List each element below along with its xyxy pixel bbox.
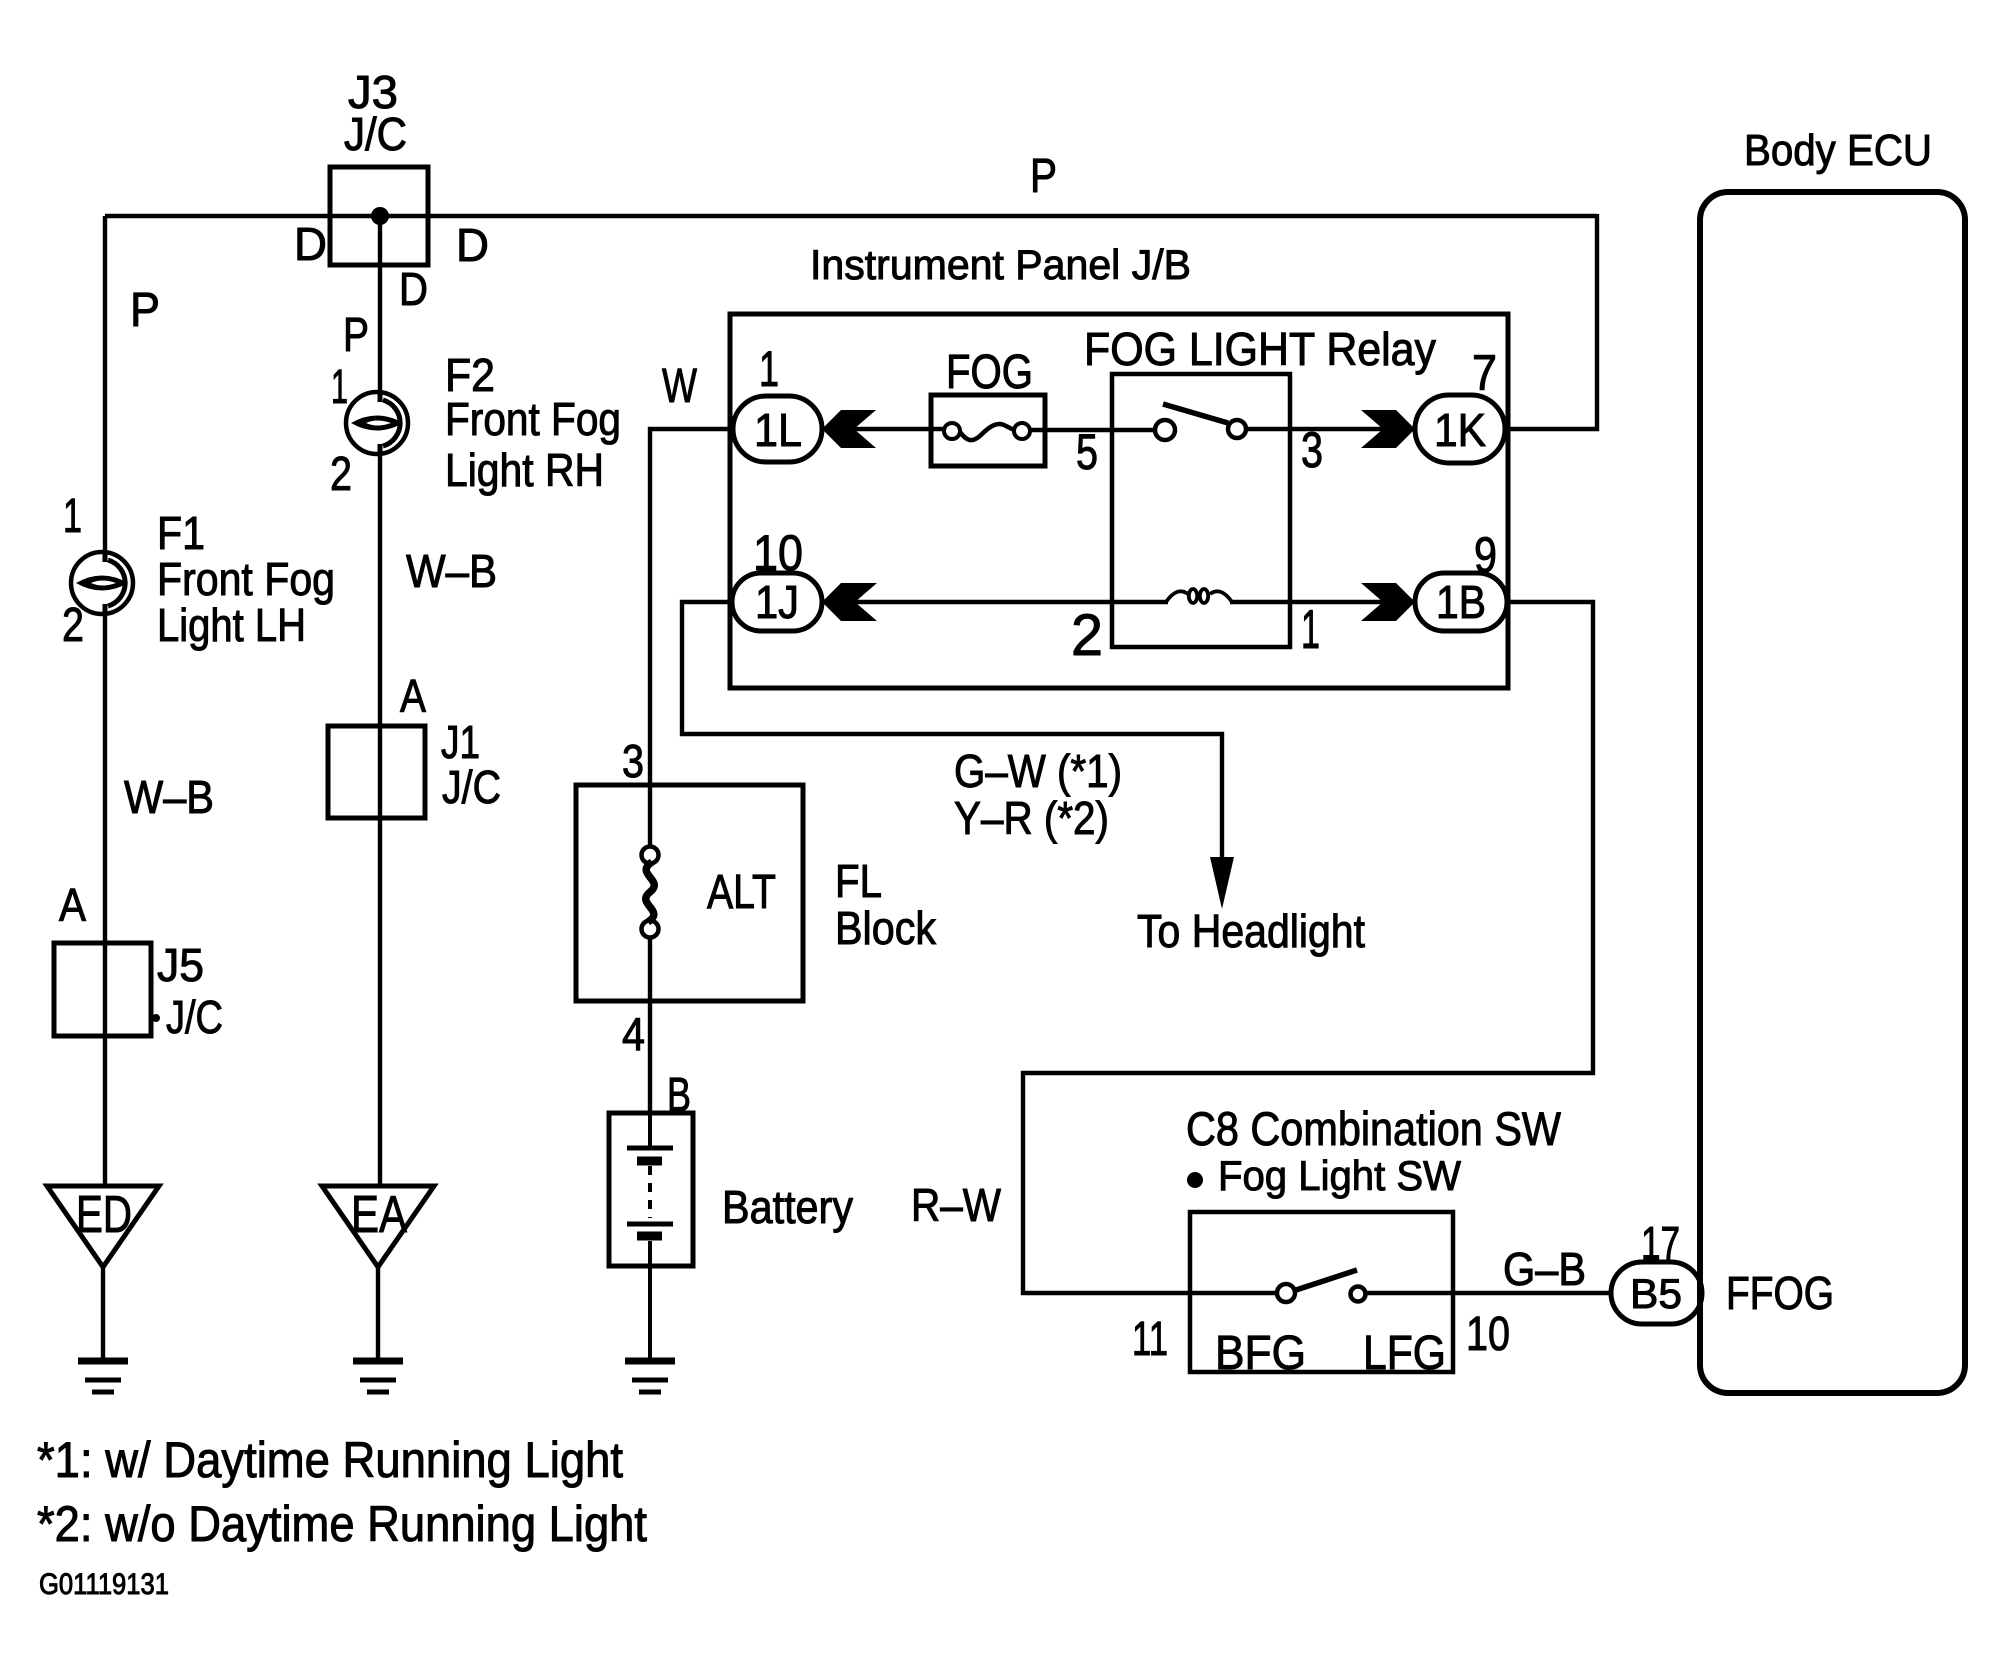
svg-text:A: A	[59, 879, 86, 931]
svg-text:R–W: R–W	[911, 1179, 1002, 1231]
wire 1B to combination switch (R-W)	[1023, 602, 1593, 1293]
fuse FOG element	[944, 423, 1030, 440]
lamp F2 Front Fog Light RH	[346, 392, 408, 454]
arrow into 1L	[822, 410, 876, 448]
ground symbol left	[78, 1361, 128, 1392]
wire W from 1L to FL block	[650, 429, 733, 1113]
svg-text:2: 2	[330, 448, 352, 501]
label J/C of J5	[152, 1014, 160, 1022]
Body ECU box	[1700, 192, 1965, 1393]
battery box	[609, 1113, 693, 1266]
svg-text:FL: FL	[835, 855, 882, 907]
svg-text:7: 7	[1472, 345, 1497, 401]
svg-text:*1: w/ Daytime Running Light: *1: w/ Daytime Running Light	[37, 1432, 623, 1488]
svg-text:W: W	[662, 360, 698, 413]
svg-text:W–B: W–B	[406, 545, 497, 597]
svg-text:10: 10	[1466, 1308, 1510, 1361]
ground triangle EA	[322, 1186, 434, 1267]
svg-text:3: 3	[622, 735, 644, 787]
wire 1K to top P wire	[1505, 214, 1597, 429]
fusible link ALT	[642, 847, 659, 938]
svg-text:Front Fog: Front Fog	[445, 393, 621, 445]
svg-text:*2: w/o Daytime Running Light: *2: w/o Daytime Running Light	[37, 1496, 647, 1552]
svg-text:Block: Block	[835, 902, 937, 954]
relay switch contacts	[1155, 420, 1175, 440]
ground symbol middle	[353, 1361, 403, 1392]
junction block J5 J/C	[54, 943, 151, 1036]
svg-text:10: 10	[753, 525, 803, 581]
wire switch to B5 (G-B)	[1367, 1291, 1611, 1295]
svg-text:9: 9	[1474, 527, 1497, 583]
svg-text:Fog Light SW: Fog Light SW	[1218, 1152, 1461, 1199]
lamp F1 Front Fog Light LH	[71, 552, 133, 614]
svg-text:1: 1	[759, 341, 779, 397]
arrow into 1K	[1361, 410, 1415, 448]
svg-text:FFOG: FFOG	[1726, 1267, 1834, 1319]
connector 1B pin 9	[1415, 573, 1507, 631]
svg-text:W–B: W–B	[124, 771, 214, 823]
ground triangle ED	[47, 1186, 159, 1267]
connector 1L pin 1	[733, 396, 822, 462]
svg-text:FOG: FOG	[946, 346, 1033, 399]
svg-text:G–W (*1): G–W (*1)	[954, 745, 1122, 797]
junction block J3 J/C	[330, 167, 428, 265]
relay FOG LIGHT Relay box	[1112, 374, 1290, 647]
svg-text:LFG: LFG	[1363, 1327, 1446, 1380]
svg-text:1K: 1K	[1434, 404, 1486, 456]
relay coil	[1166, 589, 1232, 603]
svg-text:3: 3	[1301, 422, 1323, 478]
connector B5 pin 17	[1611, 1262, 1702, 1324]
wire left vertical P/W-B/A run	[103, 216, 105, 1361]
svg-text:J/C: J/C	[166, 991, 223, 1043]
svg-text:Instrument Panel J/B: Instrument Panel J/B	[810, 241, 1191, 288]
relay switch lever	[1163, 404, 1228, 423]
svg-text:2: 2	[1071, 603, 1103, 668]
svg-text:To Headlight: To Headlight	[1137, 905, 1365, 957]
svg-text:1: 1	[1301, 598, 1320, 660]
battery cells	[627, 1113, 673, 1361]
wire middle vertical D/P/W-B/A run	[378, 216, 380, 1361]
connector 1K pin 7	[1415, 395, 1505, 463]
svg-text:D: D	[294, 218, 327, 270]
svg-text:Light RH: Light RH	[445, 444, 604, 496]
switch contacts BFG/LFG	[1277, 1284, 1295, 1302]
wire row1 1L to fuse to relay to 1K	[822, 429, 1415, 430]
svg-text:1: 1	[63, 490, 82, 543]
svg-text:2: 2	[62, 599, 84, 652]
svg-text:C8 Combination SW: C8 Combination SW	[1186, 1102, 1562, 1155]
arrow into 1B	[1361, 583, 1415, 621]
svg-text:Front Fog: Front Fog	[157, 553, 335, 605]
arrow into 1J	[822, 583, 877, 621]
fuse FOG box	[931, 395, 1045, 466]
svg-text:A: A	[400, 670, 426, 722]
Instrument Panel J/B box	[730, 314, 1508, 688]
svg-text:G–B: G–B	[1503, 1243, 1586, 1295]
svg-text:17: 17	[1641, 1217, 1680, 1269]
combination switch C8 box	[1190, 1212, 1453, 1372]
connector 1J pin 10	[732, 573, 822, 631]
svg-text:ALT: ALT	[707, 866, 776, 919]
svg-text:P: P	[1030, 150, 1057, 203]
svg-text:EA: EA	[351, 1186, 407, 1244]
label Fog Light SW bullet	[1187, 1172, 1203, 1188]
svg-text:D: D	[399, 263, 428, 315]
svg-text:J/C: J/C	[344, 108, 407, 160]
svg-text:J5: J5	[157, 939, 204, 991]
node junction dot at J3	[371, 207, 389, 225]
svg-text:F1: F1	[157, 507, 205, 559]
svg-text:D: D	[456, 219, 489, 271]
wire row2 1J to relay coil to 1B	[822, 600, 1415, 604]
svg-text:11: 11	[1132, 1313, 1168, 1366]
svg-text:J/C: J/C	[442, 761, 501, 813]
svg-text:P: P	[130, 284, 160, 337]
svg-text:BFG: BFG	[1215, 1327, 1306, 1380]
switch lever	[1296, 1270, 1357, 1290]
svg-text:1B: 1B	[1436, 576, 1486, 628]
svg-text:FOG LIGHT Relay: FOG LIGHT Relay	[1084, 323, 1436, 375]
svg-text:Battery: Battery	[722, 1181, 853, 1233]
svg-text:ED: ED	[76, 1186, 132, 1244]
svg-text:4: 4	[622, 1008, 645, 1060]
arrow down To Headlight	[1210, 857, 1234, 909]
svg-text:Light LH: Light LH	[157, 599, 306, 651]
svg-text:1L: 1L	[754, 404, 802, 456]
wire 1J to headlight (G-W / Y-R)	[682, 602, 1222, 865]
svg-text:P: P	[343, 309, 369, 362]
svg-text:B5: B5	[1630, 1270, 1682, 1317]
FL Block box	[576, 785, 803, 1001]
svg-text:Body ECU: Body ECU	[1744, 126, 1932, 175]
svg-text:Y–R (*2): Y–R (*2)	[954, 792, 1109, 844]
ground symbol battery	[625, 1361, 675, 1392]
junction block J1 J/C	[328, 726, 425, 818]
svg-text:5: 5	[1076, 424, 1098, 480]
svg-text:1: 1	[331, 361, 348, 414]
wire P top horizontal	[105, 214, 1597, 218]
svg-text:B: B	[667, 1069, 691, 1122]
svg-text:G01119131: G01119131	[39, 1568, 169, 1601]
svg-text:1J: 1J	[755, 576, 799, 628]
